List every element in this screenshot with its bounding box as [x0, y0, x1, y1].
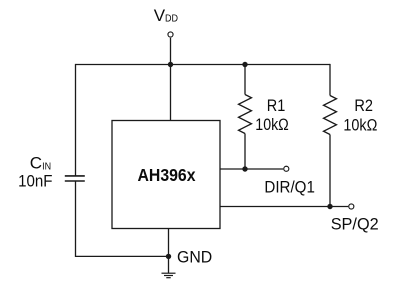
node DIR/Q1 terminal: [284, 166, 289, 171]
node VDD terminal: [168, 32, 173, 37]
svg-text:10kΩ: 10kΩ: [343, 116, 377, 135]
wire GND pin: [168, 229, 170, 274]
ground: [162, 273, 176, 278]
svg-text:R1: R1: [267, 96, 286, 115]
svg-text:VDD: VDD: [154, 6, 179, 25]
capacitor CIN: [65, 176, 85, 181]
svg-text:10nF: 10nF: [18, 171, 52, 190]
node SP/Q2 terminal: [349, 204, 354, 209]
wire left branch upper: [75, 64, 77, 176]
svg-text:GND: GND: [177, 247, 212, 266]
junction dot GND: [166, 254, 171, 259]
junction dot R1 bottom: [242, 166, 247, 171]
svg-text:SP/Q2: SP/Q2: [331, 215, 379, 234]
resistor R1: [239, 65, 252, 170]
wire SP/Q2: [220, 206, 348, 208]
wire VDD vertical: [170, 38, 172, 121]
svg-text:R2: R2: [354, 96, 373, 115]
svg-text:10kΩ: 10kΩ: [255, 115, 288, 134]
resistor R2: [324, 64, 337, 207]
junction dot R2 bottom: [327, 204, 332, 209]
junction dot R1 top: [242, 62, 247, 67]
svg-text:CIN: CIN: [30, 154, 51, 173]
svg-text:DIR/Q1: DIR/Q1: [264, 178, 315, 197]
wire left branch lower: [76, 181, 169, 256]
op-amp U1 AH396x body: [112, 121, 220, 229]
wire DIR/Q1: [220, 168, 283, 170]
svg-text:AH396x: AH396x: [138, 165, 196, 185]
wire top rail: [76, 64, 331, 66]
junction dot VDD rail: [168, 62, 173, 67]
